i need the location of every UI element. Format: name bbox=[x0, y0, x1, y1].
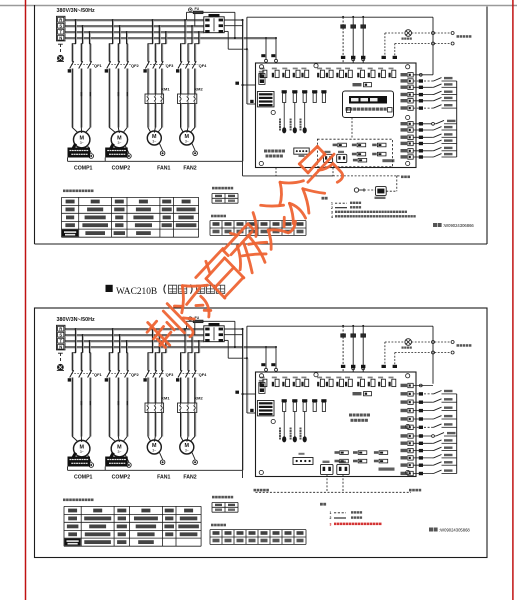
outdoor temperature sensor RT (A) bbox=[354, 176, 397, 199]
drawing number (B) bbox=[429, 528, 470, 533]
svg-text:QF3: QF3 bbox=[166, 372, 175, 377]
power supply label 380V/3N~/50Hz (A) bbox=[57, 8, 96, 14]
on-board transformer T2 (A) bbox=[257, 92, 274, 107]
PCB top connector row CN1-CN13 (B) bbox=[260, 377, 396, 387]
motor M1 COMP1 (A) bbox=[74, 131, 90, 147]
label COMP2 (A) bbox=[112, 166, 131, 172]
svg-text:3~: 3~ bbox=[80, 450, 84, 454]
svg-text:2: 2 bbox=[331, 206, 333, 210]
svg-text:KM1: KM1 bbox=[161, 395, 170, 400]
svg-text:KM1: KM1 bbox=[161, 86, 170, 91]
motor M3 FAN1 (B) bbox=[147, 440, 161, 454]
wire: COMP2 motor leads (B) bbox=[109, 378, 128, 443]
drawing frame (sheet border, bottom diagram) bbox=[35, 308, 488, 558]
wire: feed into PCB left (104) (A) bbox=[247, 100, 255, 104]
wire: FAN2 motor leads (A) bbox=[181, 104, 196, 133]
wire: right collector bus (B) bbox=[456, 394, 458, 474]
circuit breaker QF3 (A) bbox=[143, 61, 174, 72]
wire: control feed loop (B) bbox=[187, 321, 204, 335]
wire: outdoor sensor line (A) bbox=[243, 161, 400, 176]
circuit breaker QF4 (A) bbox=[176, 61, 207, 72]
display/operation module U2 (A) bbox=[343, 91, 394, 118]
temperature sensor headers JP1-JP5 (B) bbox=[279, 399, 327, 442]
svg-text:3~: 3~ bbox=[117, 450, 121, 454]
connector JP5 label (A) bbox=[353, 83, 372, 87]
crankcase heater EH2 (A) bbox=[105, 144, 128, 158]
wire: feed into PCB left (85) (B) bbox=[235, 391, 255, 396]
svg-text:3: 3 bbox=[331, 211, 333, 215]
fuse FU (A) bbox=[187, 7, 204, 14]
svg-text:QF2: QF2 bbox=[131, 63, 140, 68]
motor M3 FAN1 (A) bbox=[147, 131, 161, 145]
label COMP2 (B) bbox=[112, 475, 131, 481]
svg-text:3~: 3~ bbox=[152, 140, 156, 144]
circuit breaker QF4 (B) bbox=[176, 370, 207, 381]
svg-text:1: 1 bbox=[331, 202, 333, 206]
wire: heater neutral drop (B) bbox=[242, 470, 244, 478]
PCB mounting holes (B) bbox=[259, 373, 410, 475]
keyed connector CN16 (B) bbox=[337, 461, 350, 475]
circuit breaker QF1 (A) bbox=[68, 61, 103, 72]
PCB top connector row CN1-CN13 (A) bbox=[260, 68, 396, 78]
crankcase heater EH1 (B) bbox=[68, 453, 91, 467]
protective earth PE symbol (A) bbox=[57, 44, 64, 61]
wire: display to option box (dashed) (A) bbox=[326, 118, 352, 143]
wire: indoor/outdoor unit interconnect (dashed) (B) bbox=[256, 475, 412, 493]
page top scan edge bbox=[0, 5, 517, 7]
wire: feed into PCB left (104) (B) bbox=[247, 409, 255, 413]
protective earth PE symbol (B) bbox=[57, 353, 64, 370]
wire: COMP1 motor leads (A) bbox=[72, 69, 91, 134]
wire: control feed loop (A) bbox=[187, 12, 204, 26]
label indoor unit (B) bbox=[254, 489, 269, 492]
motor M4 FAN2 (B) bbox=[180, 440, 194, 454]
svg-text:3~: 3~ bbox=[152, 449, 156, 453]
label FAN1 (B) bbox=[157, 475, 170, 481]
svg-text:QF4: QF4 bbox=[199, 372, 208, 377]
wire: right collector bus (A) bbox=[456, 81, 458, 157]
pilot lamp HL power indicator (A) bbox=[402, 30, 412, 40]
circuit breaker QF2 (B) bbox=[105, 370, 140, 381]
fuse FU (B) bbox=[187, 316, 204, 323]
circuit breaker QF3 (B) bbox=[143, 370, 174, 381]
svg-text:380V/3N~/50Hz: 380V/3N~/50Hz bbox=[57, 317, 96, 323]
svg-text:QF1: QF1 bbox=[94, 372, 103, 377]
svg-text:4: 4 bbox=[331, 215, 333, 219]
wire: AC220V pilot circuit (A) bbox=[385, 32, 454, 59]
motor M4 earth symbol (B) bbox=[192, 452, 198, 465]
jumper connectors JP6-JP12 (A) bbox=[333, 143, 395, 162]
svg-text:R: R bbox=[59, 18, 62, 23]
red margin line right bbox=[512, 0, 514, 600]
keyed connector CN15 (B) bbox=[321, 461, 334, 475]
wire: branch FAN1 three-phase drop (B) bbox=[148, 328, 167, 371]
label COMP1 (A) bbox=[74, 166, 93, 172]
svg-text::W09024305868: :W09024305868 bbox=[439, 528, 470, 533]
label FAN2 (A) bbox=[183, 166, 196, 172]
installation notes (B) bbox=[320, 503, 382, 527]
motor M1 COMP1 (B) bbox=[74, 440, 90, 456]
section heading WAC210B circuit diagram bbox=[106, 285, 225, 298]
motor M1 earth symbol (A) bbox=[87, 145, 93, 158]
svg-text:N: N bbox=[59, 36, 62, 41]
svg-text:KM2: KM2 bbox=[194, 395, 203, 400]
svg-text:T: T bbox=[60, 339, 63, 344]
motor M4 earth symbol (A) bbox=[192, 143, 198, 156]
jumper connectors JP6-JP11 (B) bbox=[335, 451, 395, 471]
motor M2 COMP2 (B) bbox=[111, 440, 127, 456]
crankcase heater EH1 (A) bbox=[68, 144, 91, 158]
wire: FAN2 breaker to contactor (A) bbox=[181, 69, 196, 95]
circuit breaker QF2 (A) bbox=[105, 61, 140, 72]
PCB mounting holes (A) bbox=[259, 64, 410, 166]
label AC220V source (A) bbox=[457, 35, 472, 38]
circuit breaker QF1 (B) bbox=[68, 370, 103, 381]
wire mesh: transformer secondary distribution (B) bbox=[203, 321, 433, 470]
wire: branch FAN2 three-phase drop (A) bbox=[180, 19, 200, 62]
svg-text:3~: 3~ bbox=[117, 141, 121, 145]
terminal block XT1 (A) bbox=[57, 16, 66, 41]
wire: FAN1 breaker to contactor (A) bbox=[148, 69, 163, 95]
label FAN2 (B) bbox=[183, 475, 196, 481]
wires: PCB top feeds (B) bbox=[341, 325, 397, 372]
motor M3 earth symbol (B) bbox=[159, 452, 165, 465]
contactor KM2 (A) bbox=[178, 86, 204, 103]
PCB power connector L-N (B) bbox=[259, 380, 265, 394]
temperature sensor headers JP1-JP5 (A) bbox=[279, 90, 327, 133]
svg-text:3~: 3~ bbox=[80, 141, 84, 145]
motor M4 FAN2 (A) bbox=[180, 131, 194, 145]
on-board transformer T2 (B) bbox=[257, 401, 274, 416]
protector setting table (B) bbox=[212, 496, 238, 512]
component legend table (B) bbox=[63, 499, 201, 547]
PCB power connector L-N (A) bbox=[259, 71, 265, 85]
terminal block XT1 (B) bbox=[57, 325, 66, 350]
label COMP1 (B) bbox=[74, 475, 93, 481]
svg-text:FAN1: FAN1 bbox=[157, 475, 170, 481]
crankcase heater EH2 (B) bbox=[105, 453, 128, 467]
PCB main board U1 outline (B) bbox=[256, 372, 417, 477]
resistance value table (B) bbox=[210, 524, 306, 545]
wire: crankcase heater neutral link (B) bbox=[68, 467, 243, 471]
svg-text:COMP1: COMP1 bbox=[74, 166, 93, 172]
wire: branch COMP2 three-phase drop (B) bbox=[109, 328, 129, 371]
contactor KM2 (B) bbox=[178, 395, 204, 412]
motor M1 earth symbol (B) bbox=[87, 454, 93, 467]
label sensor head (A) bbox=[401, 176, 410, 179]
three-phase + neutral bus wires L1 L2 L3 N (A) bbox=[65, 20, 276, 39]
PCB right edge connectors X1-X12 (A) bbox=[401, 73, 414, 160]
svg-text:FAN1: FAN1 bbox=[157, 166, 170, 172]
svg-text:S: S bbox=[59, 24, 62, 29]
svg-text:2: 2 bbox=[330, 516, 332, 520]
control transformer TC (B) bbox=[204, 323, 224, 342]
PCB main board U1 outline (A) bbox=[256, 63, 417, 168]
svg-text:COMP2: COMP2 bbox=[112, 475, 131, 481]
svg-text:T: T bbox=[60, 30, 63, 35]
drawing frame (sheet border, top diagram) bbox=[35, 5, 488, 244]
svg-text:QF3: QF3 bbox=[166, 63, 175, 68]
svg-text:3~: 3~ bbox=[185, 449, 189, 453]
connector JP5 label (B) bbox=[353, 392, 372, 396]
red margin line left bbox=[25, 0, 27, 600]
watermark (red brush text) bbox=[143, 142, 351, 356]
installation notes (A) bbox=[322, 197, 416, 219]
label WCH03B PCM mainboard (A) bbox=[264, 150, 285, 158]
wire: FAN2 motor leads (B) bbox=[181, 413, 196, 442]
svg-text:380V/3N~/50Hz: 380V/3N~/50Hz bbox=[57, 8, 96, 14]
motor M2 earth symbol (A) bbox=[125, 145, 131, 158]
wire: FAN1 motor leads (B) bbox=[148, 413, 163, 442]
wire: FAN1 motor leads (A) bbox=[148, 104, 163, 133]
svg-text:N: N bbox=[59, 345, 62, 350]
svg-text:FAN2: FAN2 bbox=[183, 475, 196, 481]
pilot lamp HL power indicator (B) bbox=[402, 339, 412, 349]
wire: AC220V pilot circuit (B) bbox=[385, 341, 454, 368]
connector CN14 4-pin (B) bbox=[293, 453, 313, 465]
svg-text:QF2: QF2 bbox=[131, 372, 140, 377]
label AC220V source (B) bbox=[457, 344, 472, 347]
contactor KM1 (A) bbox=[145, 86, 170, 103]
wire: COMP2 motor leads (A) bbox=[109, 69, 128, 134]
label outdoor unit (B) bbox=[409, 489, 421, 492]
external input switches S1-S12 (A) bbox=[413, 73, 457, 158]
wire: crankcase heater neutral link (A) bbox=[68, 158, 243, 162]
wire: branch FAN1 three-phase drop (A) bbox=[148, 19, 167, 62]
svg-text::W09024306866: :W09024306866 bbox=[443, 223, 474, 228]
power supply label 380V/3N~/50Hz (B) bbox=[57, 317, 96, 323]
label WCH03B PCB mainboard (B) bbox=[349, 414, 370, 422]
svg-text:COMP1: COMP1 bbox=[74, 475, 93, 481]
keyed connector CN15 (A) bbox=[324, 151, 333, 163]
wire: COMP1 motor leads (B) bbox=[72, 378, 91, 443]
three-phase + neutral bus wires L1 L2 L3 N (B) bbox=[65, 329, 276, 348]
motor M2 earth symbol (B) bbox=[125, 454, 131, 467]
wire: branch COMP1 three-phase drop (A) bbox=[72, 19, 92, 62]
svg-text:FU: FU bbox=[195, 7, 200, 11]
wire: branch FAN2 three-phase drop (B) bbox=[180, 328, 200, 371]
svg-text:FAN2: FAN2 bbox=[183, 166, 196, 172]
svg-text:COMP2: COMP2 bbox=[112, 166, 131, 172]
resistance value table (A) bbox=[210, 215, 306, 236]
motor M3 earth symbol (A) bbox=[159, 143, 165, 156]
svg-text:QF4: QF4 bbox=[199, 63, 208, 68]
keyed connector CN16 (A) bbox=[337, 151, 347, 163]
svg-text:QF1: QF1 bbox=[94, 63, 103, 68]
svg-text:WAC210B: WAC210B bbox=[116, 287, 157, 297]
wire: branch COMP1 three-phase drop (B) bbox=[72, 328, 92, 371]
motor M2 COMP2 (A) bbox=[111, 131, 127, 147]
contactor KM1 (B) bbox=[145, 395, 170, 412]
drawing number (A) bbox=[433, 223, 474, 228]
svg-text:KM2: KM2 bbox=[194, 86, 203, 91]
control transformer TC (A) bbox=[204, 14, 224, 33]
wire: branch COMP2 three-phase drop (A) bbox=[109, 19, 129, 62]
svg-text:S: S bbox=[59, 333, 62, 338]
wire: feed into PCB left (85) (A) bbox=[235, 82, 255, 87]
svg-text:3~: 3~ bbox=[185, 140, 189, 144]
svg-text:R: R bbox=[59, 327, 62, 332]
wire: FAN1 breaker to contactor (B) bbox=[148, 378, 163, 404]
svg-text:1: 1 bbox=[330, 511, 332, 515]
wires: PCB top feeds (A) bbox=[341, 16, 397, 63]
external input switches S1-S12 (B) bbox=[413, 384, 457, 475]
wire: FAN2 breaker to contactor (B) bbox=[181, 378, 196, 404]
label FAN1 (A) bbox=[157, 166, 170, 172]
component legend table (A) bbox=[62, 190, 199, 238]
dashed option box on PCB (A) bbox=[317, 139, 392, 167]
connector CN14 4-pin (A) bbox=[294, 148, 309, 157]
protector setting table (A) bbox=[212, 187, 238, 203]
svg-text:3: 3 bbox=[330, 522, 332, 526]
PCB right edge connectors X1-X12 (B) bbox=[401, 383, 414, 475]
wire mesh: transformer secondary distribution (A) bbox=[203, 12, 433, 161]
